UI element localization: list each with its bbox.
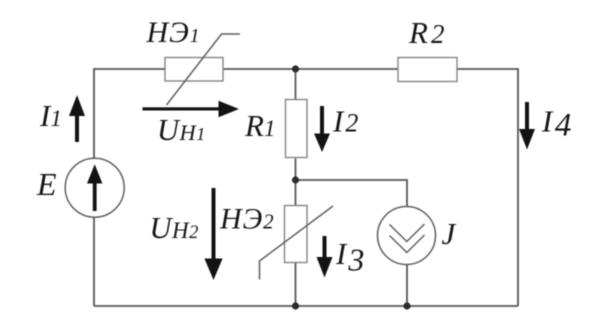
node middle (292, 176, 299, 183)
svg-text:I3: I3 (335, 236, 364, 278)
svg-text:UН1: UН1 (157, 113, 205, 147)
node top (292, 65, 299, 72)
current arrow I2 (314, 106, 330, 152)
svg-text:R1: R1 (244, 108, 275, 143)
wire node to J (296, 180, 408, 207)
current arrow I1 (69, 95, 85, 142)
arrow of source E (87, 164, 102, 211)
svg-text:J: J (442, 216, 457, 251)
voltage arrow UH2 (204, 188, 222, 280)
wire R1 to node (295, 159, 297, 206)
svg-text:R2: R2 (408, 15, 444, 50)
svg-text:I4: I4 (541, 104, 571, 144)
voltage source E (65, 158, 124, 217)
nonlinear element NE2 (260, 206, 334, 280)
current source J (378, 207, 436, 265)
svg-text:I1: I1 (39, 98, 62, 133)
resistor R1 (286, 100, 308, 158)
svg-text:I2: I2 (332, 104, 358, 139)
wire top-middle (223, 68, 398, 70)
node bottom-right (403, 302, 410, 309)
current arrow I3 (317, 236, 333, 278)
wire top-right (457, 69, 518, 306)
svg-text:НЭ1: НЭ1 (146, 16, 201, 49)
wire bottom (94, 305, 518, 307)
voltage arrow UH1 (143, 101, 240, 117)
nonlinear element NE1 (165, 34, 240, 105)
wire NE2 bottom (295, 263, 297, 307)
wire top-left (94, 69, 165, 159)
wire J bottom (406, 265, 408, 307)
svg-text:E: E (36, 166, 57, 202)
current arrow I4 (519, 102, 535, 150)
wire left-lower (93, 217, 95, 306)
svg-text:НЭ2: НЭ2 (219, 202, 275, 235)
wire R1 top (295, 69, 297, 100)
svg-text:UН2: UН2 (150, 211, 199, 245)
resistor R2 (398, 58, 457, 82)
node bottom-left (292, 302, 299, 309)
